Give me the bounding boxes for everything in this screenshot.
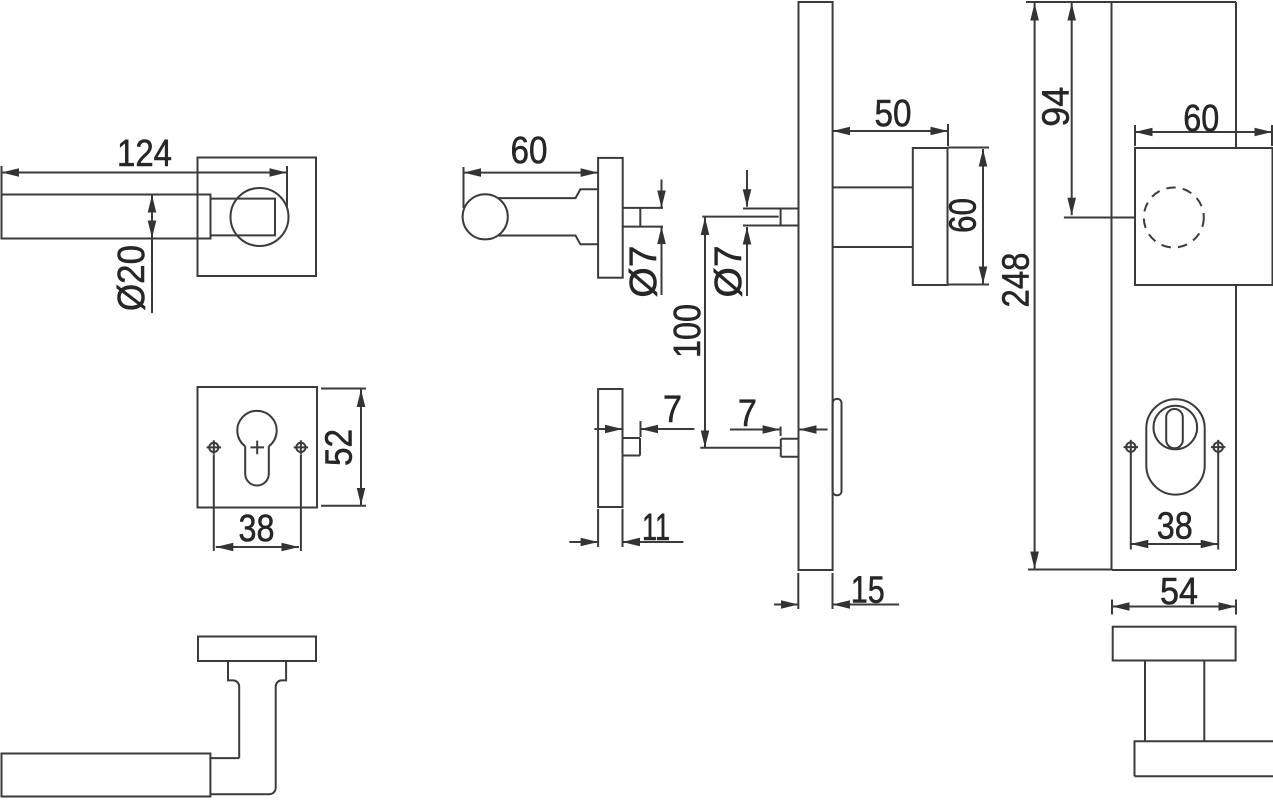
neck collar left side [228,661,239,758]
svg-text:7: 7 [663,389,682,431]
svg-text:52: 52 [319,429,361,466]
extension lines 15 [797,573,799,609]
extension line right of 124 [286,166,288,208]
dimension 52 line [360,390,362,506]
extension line 50 right [947,124,949,146]
svg-text:94: 94 [1036,87,1078,127]
svg-text:7: 7 [738,393,757,435]
dimension 248 line [1034,3,1036,569]
neck collar right side [210,661,286,794]
dimension O7 arrows (knob spindle) [661,180,663,208]
knob ball [463,194,508,239]
extension lines 52 [321,388,366,390]
rose circle [231,188,289,246]
svg-text:Ø7: Ø7 [623,246,665,298]
cylinder centre cross [251,441,265,455]
dimension 60 line (knob head) [982,149,984,284]
dashed knob circle [1144,188,1204,248]
svg-text:Ø7: Ø7 [708,246,750,298]
plate bottom view top bar [1113,627,1236,661]
extension lines 38 [213,455,215,551]
grip bar (bottom view) [2,754,211,797]
svg-text:54: 54 [1160,571,1198,613]
svg-text:60: 60 [943,198,985,233]
upper spindle stub [743,209,799,226]
knob head side view [913,148,948,285]
svg-text:11: 11 [642,507,670,549]
long plate front view left edge [1111,2,1113,570]
knob neck bottom contour [498,236,598,245]
svg-text:50: 50 [875,93,912,135]
dimension 7 rose-stub arrows [594,428,622,430]
dimension 15 arrows [774,604,798,606]
plate screw right [1214,442,1223,451]
dimension 60 line (square) [1135,131,1272,133]
cylinder protection oval [1146,399,1204,494]
extension line 60 left [463,167,465,208]
svg-text:60: 60 [1183,98,1219,140]
svg-text:248: 248 [996,253,1038,308]
lever rose spindle stub [623,438,641,456]
cylinder hole circle part [237,411,276,446]
knob rose side view [598,158,623,278]
long plate side view [799,2,833,570]
extension lines 54 [1111,600,1113,615]
extension lines 60 (square) [1134,125,1136,146]
lever rose side view (lower) [598,389,622,507]
cylinder keyway slot [1166,409,1183,448]
extension lines 60 right side [948,147,990,149]
cylinder circle [1154,406,1198,450]
upper centre line [702,216,778,218]
lower centre line [700,447,781,449]
extension line 94 bottom [1064,217,1135,219]
svg-text:15: 15 [851,570,885,612]
lower fixing stub [781,439,799,457]
lever neck (top view) [211,199,276,236]
dimension 11 arrows [569,541,598,543]
long plate front right edge (hidden behind knob square) [1235,2,1237,570]
knob neck bottom view [1145,661,1204,742]
knob square rose front view [1135,148,1273,285]
svg-text:38: 38 [239,508,275,550]
extension lines 11 [597,509,599,547]
dimension 50 line [833,130,948,132]
screw left [209,443,218,452]
latch guard on plate edge [833,399,842,495]
square escutcheon plate [198,387,318,508]
lower stub extension tick [780,427,782,437]
svg-text:Ø20: Ø20 [111,245,153,311]
lever grip bar (top view) [2,195,211,239]
svg-text:100: 100 [667,304,709,358]
square rose (top view) [198,158,317,277]
dimension 60 line (knob) [464,172,599,174]
grip bar joint line [210,757,239,759]
plate screw left [1126,442,1135,451]
extension line left of 124 [1,166,3,195]
extension lines 248 [1026,1,1112,3]
dimension 100 line [704,218,706,448]
rose plate (bottom view) [198,637,316,662]
svg-text:60: 60 [511,130,548,172]
dimension 38 line (plate) [1131,543,1218,545]
extension lines 38 (plate) [1130,454,1132,550]
dimension O7 arrows (plate spindle) [746,170,748,207]
knob neck top contour [498,189,598,198]
dimension 54 line [1112,606,1236,608]
svg-text:124: 124 [117,133,172,175]
dimension 7 plate-stub arrows [730,429,780,431]
dimension 38 line [216,546,299,548]
dimension O20 arrows [151,195,153,238]
leader line O20 [151,238,153,313]
knob head bottom view [1135,741,1273,776]
long plate front top/bottom edges [1112,2,1237,570]
dimension 124 line [2,172,288,174]
svg-text:38: 38 [1157,506,1193,548]
extension tick 7 left [640,421,642,437]
cylinder hole slot part [245,446,269,485]
screw right [296,443,305,452]
knob spindle [623,208,663,227]
dimension 94 line [1071,3,1073,215]
knob stem side view [833,187,913,247]
